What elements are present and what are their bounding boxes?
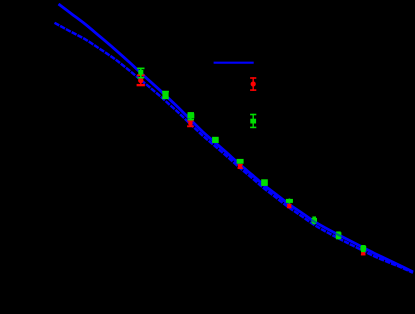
red data points (drawn under green): [137, 75, 366, 255]
red point R1: [137, 75, 145, 86]
green point G6: [261, 179, 268, 186]
green data points: [137, 68, 366, 252]
legend green data point: [250, 114, 256, 128]
wire: curve A visible through G8 marker: [311, 220, 318, 224]
red point R3: [187, 120, 194, 127]
green point G4: [212, 137, 219, 143]
green point G5: [237, 159, 244, 164]
green point G9: [336, 232, 342, 239]
red point R7: [287, 204, 292, 208]
wire: theory curve B (dashed blue): [55, 23, 414, 273]
legend line (solid blue): [214, 62, 254, 64]
wire: curve A visible through G9 marker: [335, 233, 342, 236]
green point G3: [187, 112, 194, 120]
red point R5: [238, 164, 243, 169]
green point G10: [360, 245, 366, 252]
legend red data point: [250, 77, 256, 91]
green point G2: [162, 91, 169, 99]
wire: theory curve A (solid blue): [59, 4, 414, 272]
green point G8: [311, 217, 317, 224]
red point R10: [361, 251, 366, 255]
green point G7: [286, 199, 293, 204]
green point G1: [137, 68, 144, 79]
